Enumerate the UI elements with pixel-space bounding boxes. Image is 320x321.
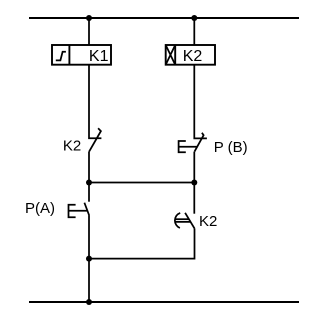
svg-text:K2: K2 (63, 138, 81, 155)
svg-text:K1: K1 (89, 48, 109, 65)
svg-text:P(A): P(A) (25, 200, 55, 217)
svg-text:P (B): P (B) (214, 139, 248, 156)
svg-text:K2: K2 (183, 48, 203, 65)
svg-text:K2: K2 (199, 213, 217, 230)
